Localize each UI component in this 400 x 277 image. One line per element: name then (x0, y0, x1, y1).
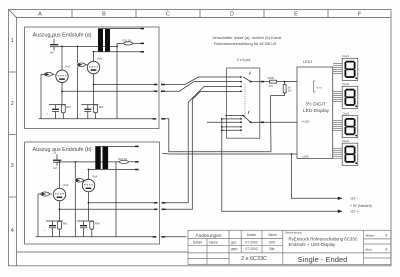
svg-text:2 x 6C33C: 2 x 6C33C (241, 256, 267, 262)
svg-text:Blätter:: Blätter: (366, 233, 376, 237)
svg-text:+: + (47, 113, 49, 116)
svg-text:V in: V in (317, 85, 323, 89)
svg-text:07.2002: 07.2002 (245, 247, 257, 251)
svg-text:1: 1 (11, 38, 14, 44)
svg-text:U2 +: U2 + (351, 209, 360, 214)
svg-text:1%: 1% (288, 89, 292, 93)
svg-text:C5: C5 (50, 35, 54, 39)
svg-text:B: B (102, 11, 106, 17)
svg-text:Rk1: Rk1 (67, 105, 72, 109)
svg-text:Rö1: Rö1 (66, 65, 71, 69)
svg-text:220R: 220R (268, 76, 274, 80)
svg-text:Rö4: Rö4 (93, 175, 98, 179)
svg-text:3½ DIGIT: 3½ DIGIT (305, 100, 326, 107)
svg-text:Name: Name (209, 240, 218, 244)
svg-text:+USS: +USS (302, 120, 310, 124)
svg-text:3: 3 (11, 163, 14, 169)
svg-text:Rk4: Rk4 (95, 222, 100, 226)
svg-text:C6: C6 (53, 150, 57, 154)
svg-text:Auszug aus Endstufe (b): Auszug aus Endstufe (b) (33, 147, 92, 153)
svg-text:Single - Ended: Single - Ended (298, 255, 348, 264)
svg-text:Datum: Datum (247, 233, 257, 237)
svg-text:Endstufe + LED-Display: Endstufe + LED-Display (289, 242, 337, 247)
svg-text:Dsp1: Dsp1 (343, 54, 350, 58)
svg-text:C: C (166, 11, 170, 17)
svg-text:LED1: LED1 (303, 60, 313, 64)
svg-text:Dsp4: Dsp4 (343, 139, 350, 143)
svg-text:Rk2: Rk2 (99, 105, 104, 109)
svg-text:Rö2: Rö2 (98, 57, 103, 61)
svg-text:Umschalter linker (a), rechter: Umschalter linker (a), rechter (b) Kanal (213, 35, 282, 40)
svg-text:4u7: 4u7 (50, 51, 55, 55)
svg-text:6: 6 (386, 247, 388, 251)
svg-text:gepr.: gepr. (231, 247, 238, 251)
svg-text:2: 2 (11, 101, 14, 107)
svg-text:+: + (44, 229, 46, 232)
svg-text:Rk3: Rk3 (63, 222, 68, 226)
svg-text:LED-Display: LED-Display (303, 108, 330, 113)
svg-text:1%: 1% (269, 84, 273, 88)
svg-text:-USS: -USS (302, 155, 309, 159)
svg-text:D: D (230, 11, 234, 17)
svg-text:Auszug aus Endstufe (a): Auszug aus Endstufe (a) (33, 33, 92, 39)
svg-text:+ 9V (Netzteil): + 9V (Netzteil) (350, 204, 372, 208)
svg-text:4u7: 4u7 (53, 166, 58, 170)
svg-text:E: E (294, 11, 298, 17)
svg-text:U2 -: U2 - (351, 195, 359, 200)
svg-text:Rö3: Rö3 (64, 183, 69, 187)
svg-text:+: + (79, 113, 81, 116)
svg-text:R21 1R: R21 1R (123, 39, 132, 43)
svg-text:Änderungen: Änderungen (195, 232, 221, 239)
svg-text:A: A (38, 11, 42, 17)
svg-text:07.2002: 07.2002 (245, 241, 257, 245)
svg-text:Bezeichnung: Bezeichnung (286, 231, 303, 235)
svg-text:Dsp2: Dsp2 (343, 82, 350, 86)
svg-text:Bla: Bla (270, 247, 275, 251)
svg-text:RvEinsock Röhrenschaltung 6C33: RvEinsock Röhrenschaltung 6C33C (289, 236, 358, 241)
svg-text:2 x 5 pol: 2 x 5 pol (237, 58, 251, 62)
svg-text:4: 4 (11, 228, 14, 234)
svg-text:F: F (358, 11, 362, 17)
svg-text:Ruhestromeinstellung für 6C33C: Ruhestromeinstellung für 6C33C-B (214, 41, 276, 46)
svg-text:6: 6 (386, 233, 388, 237)
svg-text:+: + (75, 229, 77, 232)
svg-text:Blatt:: Blatt: (366, 247, 373, 251)
svg-text:R22 1R: R22 1R (118, 157, 127, 161)
svg-text:gez.: gez. (231, 241, 237, 245)
svg-text:Dsp3: Dsp3 (343, 111, 350, 115)
svg-text:Datum: Datum (193, 240, 203, 244)
svg-text:Name: Name (268, 233, 277, 237)
svg-text:DIN: DIN (269, 241, 275, 245)
